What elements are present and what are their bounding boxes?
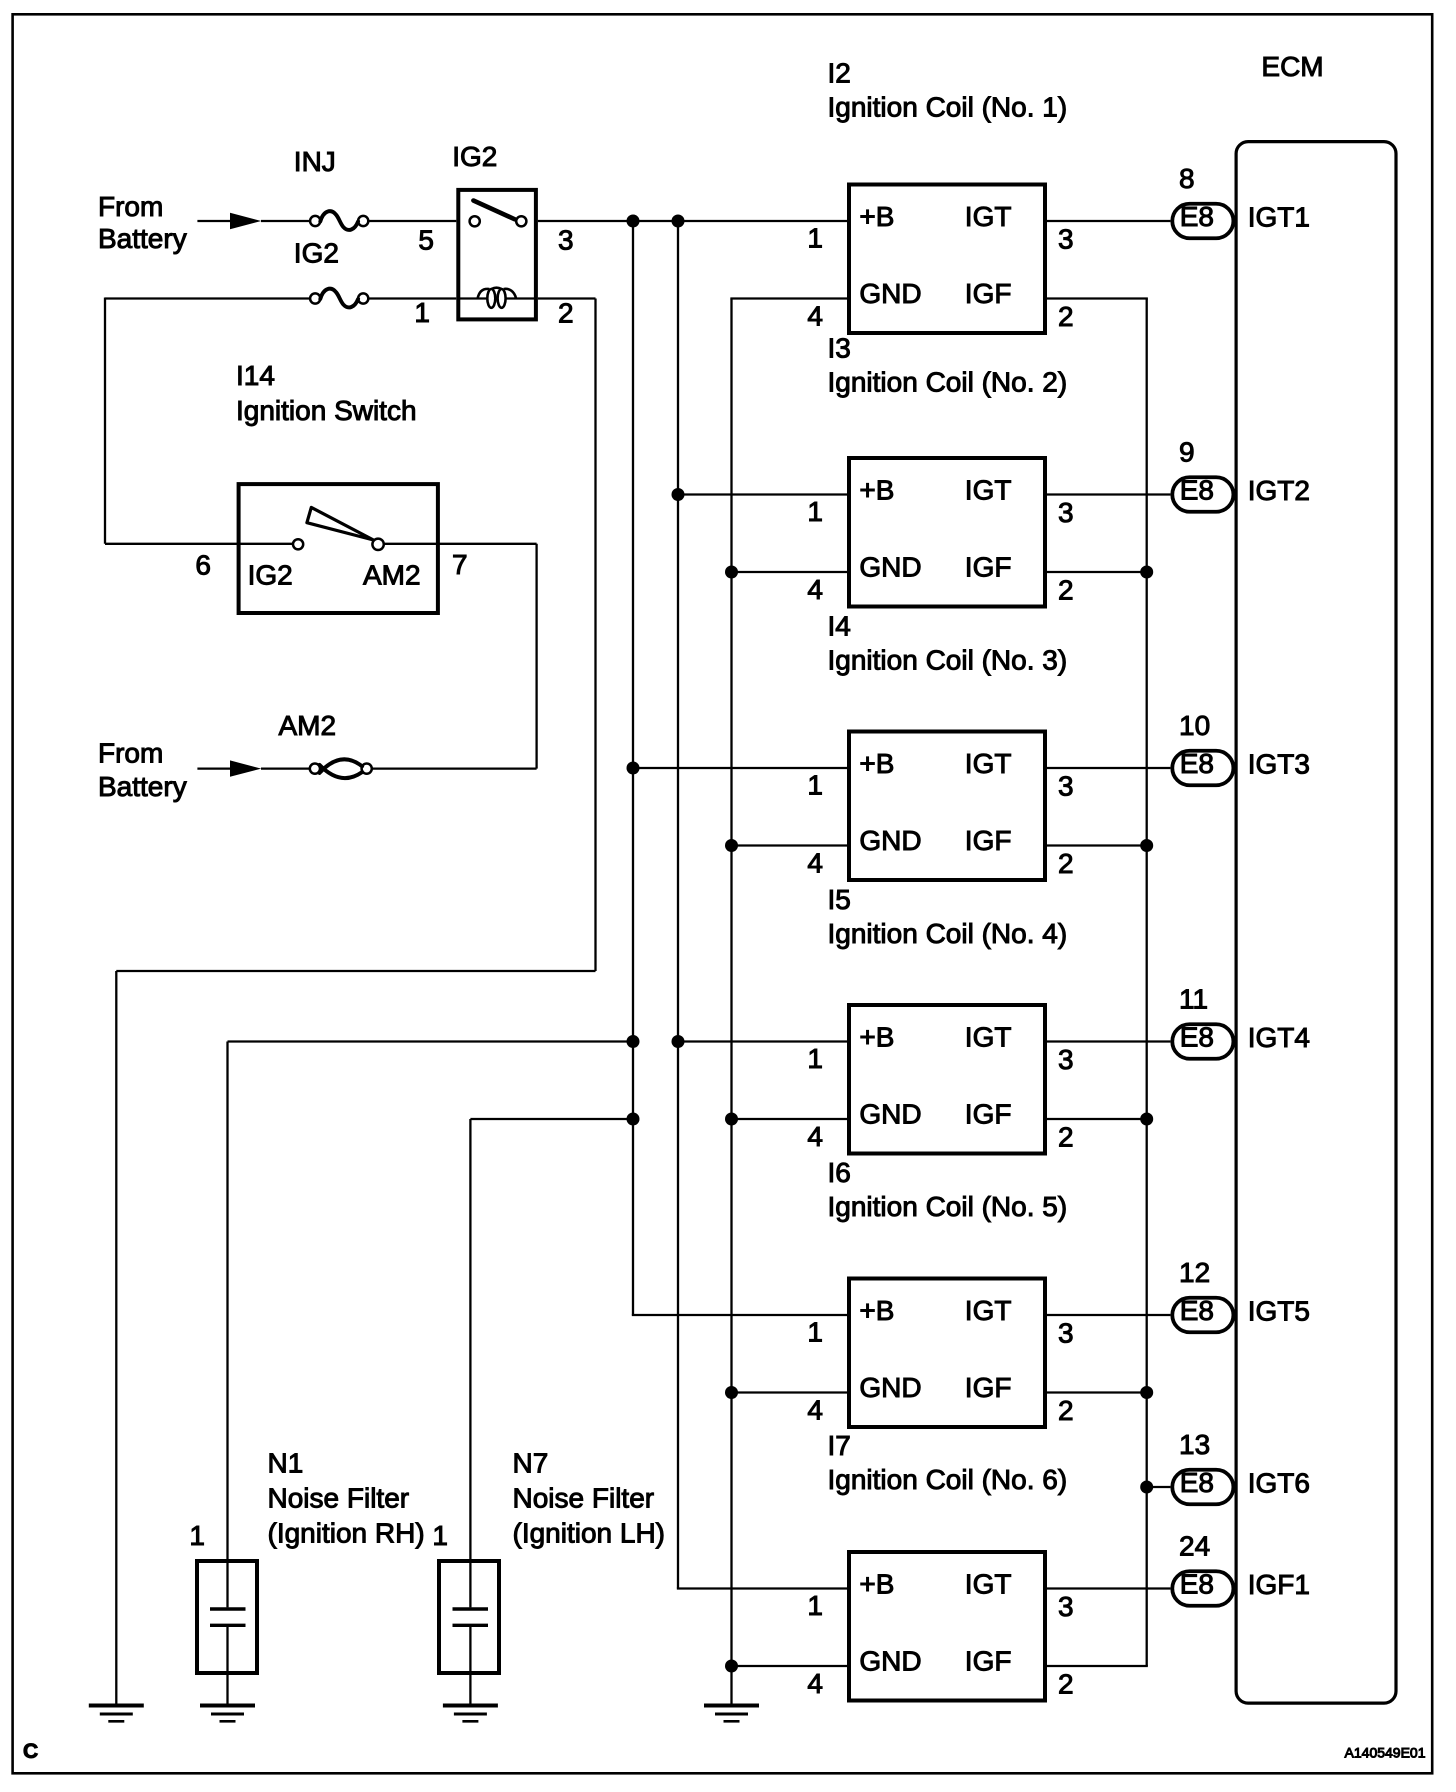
svg-text:2: 2 (1058, 1122, 1074, 1153)
svg-text:IGT: IGT (965, 201, 1012, 232)
wire: N7 capacitor to ground (469, 1627, 471, 1704)
svg-text:IGF: IGF (965, 1372, 1012, 1403)
noise filter N1 label (268, 1448, 425, 1549)
ignition coil I7 (Ignition Coil (No. 6)) box (849, 1552, 1045, 1701)
svg-text:IGT: IGT (965, 1569, 1012, 1600)
ignition switch I14 box (239, 484, 438, 613)
svg-text:4: 4 (807, 301, 823, 332)
coil reference label I6 / Ignition Coil (No. 5) (828, 1157, 1068, 1222)
arrow: AM2 battery feed direction (230, 760, 261, 776)
relay IG2 switch contacts and blade (470, 201, 527, 227)
svg-text:11: 11 (1179, 984, 1208, 1015)
wire: coil 1 GND to bus C corner (730, 297, 851, 299)
noise filter N1 drop wire (226, 1042, 228, 1608)
connector E8 pin 10 (IGT3) (1172, 751, 1233, 786)
wire: +B bus B (feeds coils 2,4,6) (677, 221, 679, 1589)
junction + wire: GND coil 5 to bus C (725, 1386, 738, 1399)
relay IG2 coil winding (458, 288, 536, 308)
svg-text:GND: GND (859, 278, 921, 309)
wire: IG2 fuse feed from ignition switch (left riser) (104, 298, 106, 544)
svg-text:1: 1 (807, 770, 823, 801)
wire: coil I5 IGT output to ECM (1043, 1040, 1170, 1042)
svg-text:3: 3 (558, 225, 574, 256)
ignition switch contacts IG2 / AM2 with blade (293, 507, 384, 550)
svg-text:2: 2 (1058, 848, 1074, 879)
svg-text:N7: N7 (513, 1448, 549, 1479)
svg-text:12: 12 (1179, 1257, 1210, 1288)
svg-text:I2: I2 (828, 58, 851, 89)
svg-text:IG2: IG2 (294, 237, 339, 268)
svg-text:2: 2 (1058, 1395, 1074, 1426)
junction: +B bus A top (627, 215, 640, 228)
noise filter N7 drop wire (469, 1119, 471, 1607)
svg-text:4: 4 (807, 1668, 823, 1699)
svg-text:IGF: IGF (965, 278, 1012, 309)
svg-text:7: 7 (452, 549, 468, 580)
wire: arrow to fusible link AM2 (261, 767, 311, 769)
svg-text:E8: E8 (1180, 475, 1214, 506)
ECM box (1236, 142, 1396, 1704)
svg-text:I3: I3 (828, 332, 851, 363)
wire: coil I3 IGT output to ECM (1043, 493, 1170, 495)
wire: coil I6 IGT output to ECM (1043, 1314, 1170, 1316)
wire: noise filter N7 branch to bus A (470, 1118, 633, 1120)
svg-text:+B: +B (859, 201, 894, 232)
node: From Battery (IG2 feed) label (98, 191, 187, 254)
svg-text:GND: GND (859, 1646, 921, 1677)
svg-text:1: 1 (807, 1043, 823, 1074)
svg-text:IGT5: IGT5 (1248, 1295, 1310, 1326)
svg-text:C: C (23, 1740, 38, 1763)
svg-text:GND: GND (859, 1372, 921, 1403)
svg-text:2: 2 (1058, 575, 1074, 606)
svg-text:2: 2 (1058, 301, 1074, 332)
connector E8 pin 24 (IGF1) (1172, 1571, 1233, 1606)
svg-text:1: 1 (414, 297, 430, 328)
svg-text:IGF: IGF (965, 552, 1012, 583)
svg-text:E8: E8 (1180, 1022, 1214, 1053)
svg-text:3: 3 (1058, 497, 1074, 528)
svg-text:3: 3 (1058, 771, 1074, 802)
svg-text:3: 3 (1058, 1318, 1074, 1349)
svg-text:GND: GND (859, 825, 921, 856)
connector E8 pin 12 (IGT5) (1172, 1298, 1233, 1333)
svg-text:1: 1 (432, 1520, 448, 1551)
svg-text:E8: E8 (1180, 1295, 1214, 1326)
connector E8 pin 9 (IGT2) (1172, 477, 1233, 512)
svg-text:IGT: IGT (965, 1022, 1012, 1053)
capacitor (noise filter N1) (210, 1609, 246, 1625)
wire: fusible link AM2 to switch pin 7 riser (372, 767, 537, 769)
junction + wire: +B feed coil 4 (672, 1035, 685, 1048)
ground (coil GND bus) (704, 1706, 759, 1722)
svg-text:Noise Filter: Noise Filter (513, 1483, 655, 1514)
svg-text:8: 8 (1179, 163, 1195, 194)
ignition switch I14 label (236, 360, 417, 426)
coil reference label I2 / Ignition Coil (No. 1) (828, 58, 1068, 123)
coil reference label I4 / Ignition Coil (No. 3) (828, 611, 1068, 676)
junction + wire: +B feed coil 3 (627, 762, 640, 775)
svg-text:+B: +B (859, 748, 894, 779)
wire: fuse INJ to relay IG2 pin 5 (368, 220, 456, 222)
noise filter N7 box (439, 1561, 499, 1673)
svg-text:10: 10 (1179, 710, 1210, 741)
svg-text:IGT: IGT (965, 475, 1012, 506)
coil I7 pin numbers 1,4,3,2 (807, 1590, 1073, 1700)
wire: +B feed coil 6 from bus B corner (677, 1587, 851, 1589)
wire: IGF bus D (1146, 299, 1148, 1667)
svg-text:Battery: Battery (98, 771, 187, 802)
ignition coil I5 (Ignition Coil (No. 4)) box (849, 1005, 1045, 1154)
svg-text:+B: +B (859, 1022, 894, 1053)
wire: N1 capacitor to ground (226, 1627, 228, 1704)
svg-text:N1: N1 (268, 1448, 304, 1479)
svg-text:IGF: IGF (965, 1099, 1012, 1130)
svg-text:+B: +B (859, 1295, 894, 1326)
coil I3 terminal labels (859, 475, 1011, 583)
svg-text:(Ignition LH): (Ignition LH) (513, 1518, 666, 1549)
coil I4 pin numbers 1,4,3,2 (807, 770, 1073, 880)
wire: left ground drop (115, 971, 117, 1704)
svg-text:Ignition Switch: Ignition Switch (236, 395, 417, 426)
svg-text:E8: E8 (1180, 748, 1214, 779)
wire: coil I4 IGT output to ECM (1043, 767, 1170, 769)
svg-text:From: From (98, 191, 163, 222)
wire: coil 1 IGF to bus D corner (1043, 297, 1148, 299)
junction + wire: IGF coil 5 to bus D (1140, 1386, 1153, 1399)
connector E8 pin 8 (IGT1) (1172, 204, 1233, 239)
svg-text:IGT2: IGT2 (1248, 475, 1310, 506)
svg-text:IGF: IGF (965, 825, 1012, 856)
svg-text:3: 3 (1058, 224, 1074, 255)
svg-text:I4: I4 (828, 611, 851, 642)
svg-text:GND: GND (859, 552, 921, 583)
wire: AM2 drop to fusible link row (535, 544, 537, 769)
junction + wire: GND coil 2 to bus C (725, 566, 738, 579)
wire: coil I2 IGT output to ECM (1043, 220, 1170, 222)
svg-text:IGF: IGF (965, 1646, 1012, 1677)
coil reference label I7 / Ignition Coil (No. 6) (828, 1430, 1068, 1495)
svg-text:4: 4 (807, 574, 823, 605)
capacitor (noise filter N7) (453, 1609, 489, 1625)
svg-text:1: 1 (807, 223, 823, 254)
svg-text:Ignition Coil (No. 3): Ignition Coil (No. 3) (828, 645, 1068, 676)
wire: coil I7 IGT output to ECM IGF1 (crosses bus D) (1043, 1587, 1170, 1589)
wire: noise filter N1 branch to bus A (228, 1040, 634, 1042)
junction + wire: GND coil 4 to bus C (725, 1113, 738, 1126)
svg-text:I14: I14 (236, 360, 275, 391)
connector E8 pin 13 (IGT6) (1172, 1470, 1233, 1505)
junction + wire: GND coil 6 to bus C (725, 1660, 738, 1673)
svg-text:IGT: IGT (965, 748, 1012, 779)
ignition coil I3 (Ignition Coil (No. 2)) box (849, 458, 1045, 607)
coil I2 pin numbers 1,4,3,2 (807, 223, 1073, 333)
ignition coil I4 (Ignition Coil (No. 3)) box (849, 732, 1045, 881)
svg-text:IG2: IG2 (452, 141, 497, 172)
svg-text:1: 1 (807, 1590, 823, 1621)
junction + wire: +B feed coil 2 (672, 488, 685, 501)
wire: GND bus C (730, 299, 732, 1704)
fuse INJ (IG2 circuit) (310, 211, 368, 230)
svg-text:E8: E8 (1180, 201, 1214, 232)
svg-text:AM2: AM2 (279, 710, 337, 741)
coil reference label I5 / Ignition Coil (No. 4) (828, 884, 1068, 949)
coil reference label I3 / Ignition Coil (No. 2) (828, 332, 1068, 397)
svg-text:Ignition Coil (No. 4): Ignition Coil (No. 4) (828, 918, 1068, 949)
wire: relay coil ground run to left (116, 970, 595, 972)
svg-text:GND: GND (859, 1099, 921, 1130)
svg-text:I5: I5 (828, 884, 851, 915)
wire: relay pin 2 to ground riser (538, 297, 596, 299)
svg-text:Ignition Coil (No. 5): Ignition Coil (No. 5) (828, 1191, 1068, 1222)
wire: arrow to fuse INJ (261, 220, 311, 222)
wire: +B feed coil 5 from bus A corner (632, 1314, 851, 1316)
svg-text:IGT6: IGT6 (1248, 1467, 1310, 1498)
svg-text:9: 9 (1179, 437, 1195, 468)
coil I3 pin numbers 1,4,3,2 (807, 496, 1073, 606)
svg-text:E8: E8 (1180, 1569, 1214, 1600)
svg-text:IGT: IGT (965, 1295, 1012, 1326)
svg-text:IGF1: IGF1 (1248, 1569, 1310, 1600)
svg-text:ECM: ECM (1261, 51, 1323, 82)
wire: fuse IG2 to relay pin 1 (368, 297, 456, 299)
svg-text:+B: +B (859, 475, 894, 506)
ignition coil I2 (Ignition Coil (No. 1)) box (849, 185, 1045, 334)
svg-text:IGT1: IGT1 (1248, 201, 1310, 232)
svg-text:1: 1 (807, 496, 823, 527)
ground (relay coil return) (89, 1706, 144, 1722)
noise filter N1 box (197, 1561, 257, 1673)
wire: coil 6 IGF to bus D bottom corner (1043, 1665, 1148, 1667)
svg-text:4: 4 (807, 1121, 823, 1152)
junction: +B bus B top (672, 215, 685, 228)
svg-text:INJ: INJ (294, 146, 336, 177)
svg-text:13: 13 (1179, 1429, 1210, 1460)
svg-text:Ignition Coil (No. 1): Ignition Coil (No. 1) (828, 92, 1068, 123)
connector E8 pin 11 (IGT4) (1172, 1024, 1233, 1059)
svg-text:2: 2 (558, 297, 574, 328)
ignition coil I6 (Ignition Coil (No. 5)) box (849, 1279, 1045, 1428)
junction + wire: GND coil 3 to bus C (725, 839, 738, 852)
svg-text:1: 1 (807, 1317, 823, 1348)
junction + wire: IGF coil 4 to bus D (1140, 1113, 1153, 1126)
svg-text:Ignition Coil (No. 2): Ignition Coil (No. 2) (828, 366, 1068, 397)
svg-text:Battery: Battery (98, 223, 187, 254)
svg-text:4: 4 (807, 848, 823, 879)
wire: relay pin 3 to ignition coil No.1 +B (with +B branch dots) (538, 220, 851, 222)
svg-text:I6: I6 (828, 1157, 851, 1188)
svg-text:From: From (98, 738, 163, 769)
coil I5 pin numbers 1,4,3,2 (807, 1043, 1073, 1153)
svg-text:3: 3 (1058, 1591, 1074, 1622)
coil I2 terminal labels (859, 201, 1011, 309)
fusible link AM2 (310, 759, 372, 778)
coil I6 terminal labels (859, 1295, 1011, 1403)
junction + wire: IGF coil 3 to bus D (1140, 839, 1153, 852)
svg-text:5: 5 (418, 225, 434, 256)
svg-text:1: 1 (189, 1520, 205, 1551)
svg-text:I7: I7 (828, 1430, 851, 1461)
svg-text:IGT3: IGT3 (1248, 748, 1310, 779)
svg-text:A140549E01: A140549E01 (1345, 1745, 1426, 1761)
wire: +B bus A (feeds coils 3,5 and noise filters) (632, 221, 634, 1316)
ground (noise filter N1) (200, 1706, 255, 1722)
svg-text:Noise Filter: Noise Filter (268, 1483, 410, 1514)
svg-text:AM2: AM2 (363, 560, 421, 591)
node: From Battery (AM2 feed) label (98, 738, 187, 803)
wire: battery feed into AM2 arrow (197, 767, 231, 769)
svg-text:E8: E8 (1180, 1467, 1214, 1498)
relay IG2 box (458, 190, 536, 320)
wire: AM2 terminal out of switch (384, 543, 537, 545)
ground (noise filter N7) (443, 1706, 498, 1722)
coil I4 terminal labels (859, 748, 1011, 856)
noise filter N7 label (513, 1448, 666, 1549)
svg-text:2: 2 (1058, 1669, 1074, 1700)
fuse IG2 (relay coil feed) (310, 289, 368, 308)
svg-text:4: 4 (807, 1395, 823, 1426)
svg-text:+B: +B (859, 1569, 894, 1600)
svg-text:3: 3 (1058, 1044, 1074, 1075)
svg-text:IGT4: IGT4 (1248, 1022, 1310, 1053)
svg-text:(Ignition RH): (Ignition RH) (268, 1518, 425, 1549)
arrow: battery feed direction (230, 213, 261, 229)
svg-text:24: 24 (1179, 1531, 1210, 1562)
svg-text:IG2: IG2 (248, 560, 293, 591)
junction + wire: IGF coil 2 to bus D (1140, 566, 1153, 579)
wire: riser into ignition switch IG2 terminal (105, 543, 293, 545)
coil I5 terminal labels (859, 1022, 1011, 1130)
coil I6 pin numbers 1,4,3,2 (807, 1317, 1073, 1427)
svg-text:6: 6 (195, 550, 211, 581)
wire: battery feed into arrow (197, 220, 231, 222)
junction + stub: bus D to ECM IGT6 connector (1140, 1481, 1153, 1494)
wire: relay coil ground riser (594, 299, 596, 972)
coil I7 terminal labels (859, 1569, 1011, 1677)
svg-text:Ignition Coil (No. 6): Ignition Coil (No. 6) (828, 1464, 1068, 1495)
